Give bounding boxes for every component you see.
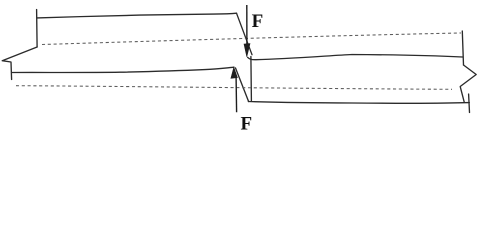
bottom edge of right bar [248, 102, 469, 104]
dashed centerline of left bar (upper) [42, 33, 461, 45]
svg-text:F: F [252, 11, 264, 32]
force arrow F (top), pointing down [246, 5, 248, 44]
dashed centerline of right bar (lower) [16, 86, 452, 90]
force arrow F (bottom), pointing up [235, 78, 238, 112]
left vertical face of right bar [250, 57, 253, 101]
svg-text:F: F [241, 113, 253, 134]
sheared section face, lower diagonal [236, 68, 249, 102]
bottom edge of left bar [12, 67, 234, 72]
top edge of right bar [248, 55, 463, 60]
sheared section face, upper diagonal [237, 13, 253, 55]
right break zigzag [460, 65, 476, 102]
left end tick mark [36, 10, 39, 48]
left break zigzag [2, 47, 37, 80]
top edge of left bar [37, 13, 237, 18]
right break zigzag vertical [462, 31, 463, 65]
right end tick mark [468, 94, 471, 113]
